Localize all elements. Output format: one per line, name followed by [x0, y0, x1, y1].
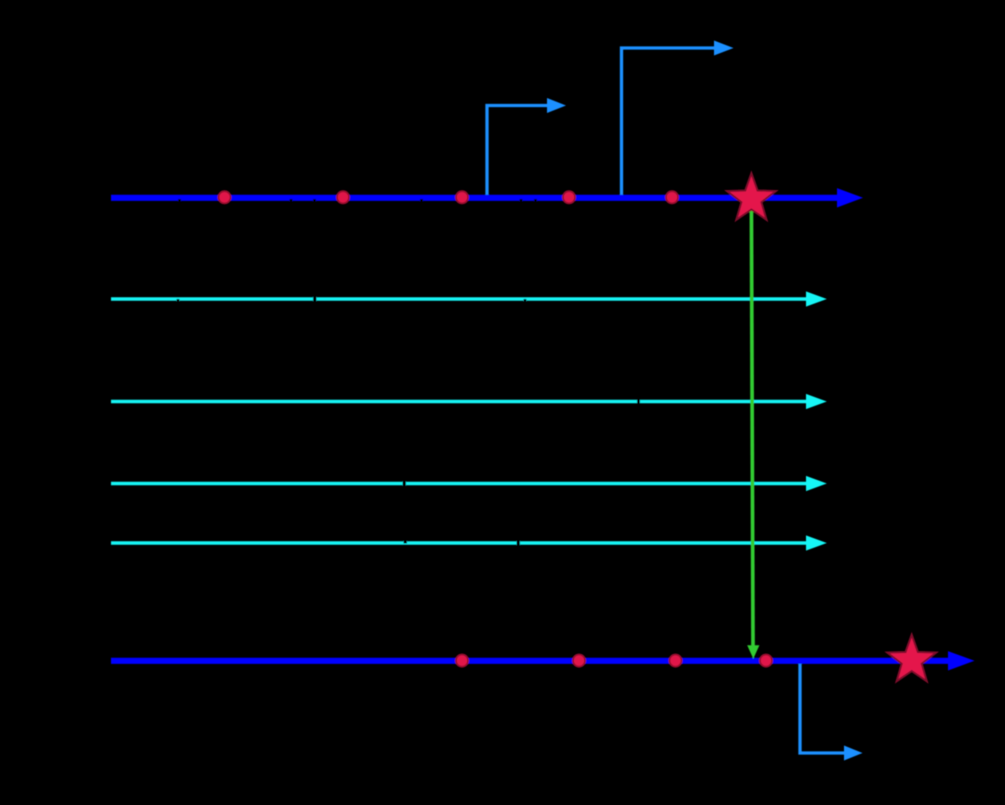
elbow arrow 1 (top) [487, 98, 566, 200]
star bottom [887, 635, 936, 682]
elbow arrow 2 (top) [622, 41, 734, 201]
cyan line 2 [111, 394, 827, 409]
bottom timeline [111, 651, 975, 670]
cyan line 4 [111, 535, 827, 550]
star top [727, 173, 776, 220]
dots bottom line [456, 655, 772, 667]
elbow arrow (bottom) [800, 661, 863, 761]
top timeline [111, 188, 863, 207]
tick notches (black axis ticks overlapping lines) [177, 199, 641, 547]
cyan line 3 [111, 476, 827, 491]
green arrow [747, 206, 759, 659]
dots top line [218, 191, 678, 203]
cyan line 1 [111, 291, 827, 306]
